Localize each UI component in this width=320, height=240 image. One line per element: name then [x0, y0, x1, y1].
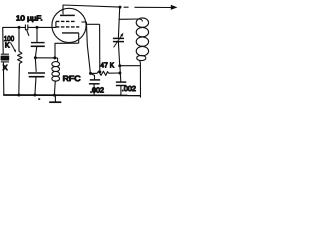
capacitor C5 bottom lead [120, 86, 122, 95]
wire: C3 bottom lead [118, 42, 119, 66]
capacitor C5 .002 top lead [119, 66, 122, 82]
capacitor C1 10uuF right plate [27, 25, 29, 31]
wire: grid line from left rail to tube [2, 26, 25, 28]
resistor R2 47K zigzag [97, 71, 108, 75]
node: dot cathode joins node wire [53, 56, 56, 59]
wire: top plate/B+ rail left segment [63, 5, 120, 7]
tube V1 cathode bar [62, 32, 79, 34]
wire: branch down from node to cathode bypass cap [34, 58, 37, 72]
capacitor C4 .002 top lead from screen node [91, 74, 95, 80]
inductor L1 tank coil loops [136, 18, 148, 61]
resistor R2 47K left lead [91, 72, 98, 74]
crystal X1 bottom plate [1, 61, 9, 63]
speck under rail [38, 98, 40, 100]
resistor R1 100K top lead [18, 27, 20, 51]
tube V1 grid entry hook [55, 21, 57, 28]
variable capacitor C3 arrow [114, 35, 122, 47]
svg-text:47 K: 47 K [100, 60, 114, 69]
wire: tank bottom horizontal [120, 65, 141, 67]
wire: bottom ground rail [3, 94, 140, 97]
svg-text:RFC: RFC [63, 74, 82, 83]
node: junction dot grid/capacitor branch [36, 26, 39, 29]
resistor R1 100K bottom lead [18, 64, 21, 95]
wire: screen stub exiting tube right [82, 21, 87, 23]
capacitor C2 bottom plate [31, 45, 45, 47]
crystal X1 top plate [1, 53, 9, 55]
node: dot screen/R2/C4 junction [89, 72, 92, 75]
crystal X1 body [1, 56, 9, 60]
wire: top rail short dash after dot [124, 6, 129, 8]
node: dot resistor R1 to bottom rail [17, 94, 20, 97]
ground stub [54, 95, 56, 102]
capacitor C6 cathode bypass top plate [28, 72, 45, 74]
capacitor C4 bottom lead [93, 84, 95, 95]
leader arrow from label to C1 [26, 29, 29, 36]
tube V1 envelope [52, 8, 86, 42]
tube V1 control grid (dashed) [56, 20, 75, 22]
wire: cathode node horizontal [35, 57, 57, 59]
node: dot cathode-node left [34, 56, 37, 59]
tube V1 screen grid (dashed) [56, 26, 79, 28]
svg-text:K: K [5, 41, 10, 50]
tube V1 cathode down lead inside envelope [78, 33, 80, 43]
node: dot RFC to bottom rail [53, 94, 56, 97]
wire: tank down lead to ground rail [139, 66, 141, 98]
node: dot on bottom rail (cap branch) [33, 94, 36, 97]
capacitor C5 .002 bottom plate [116, 85, 126, 87]
capacitor C2 top plate [31, 42, 45, 44]
wire: top rail long segment to output [135, 6, 173, 8]
ground bar [49, 101, 61, 103]
resistor R1 100K zigzag [18, 51, 22, 63]
capacitor C6 bottom lead [35, 77, 36, 95]
inductor L1 bottom lead [139, 60, 142, 65]
capacitor C4 .002 bottom plate [89, 83, 100, 85]
wire: tank branch from top rail [118, 7, 119, 38]
capacitor C5 .002 top plate [116, 81, 126, 83]
wire: cross stub to lead B [87, 23, 100, 25]
wire: lead B down [99, 24, 101, 71]
tube V1 plate bar [60, 14, 75, 16]
capacitor C2 bottom lead [35, 46, 37, 57]
wire: screen lead A down [86, 22, 90, 73]
node: junction dot grid/resistor [18, 26, 21, 29]
svg-text:10 µµF.: 10 µµF. [16, 14, 43, 23]
node: dot lead B end [98, 70, 101, 73]
leader arrow from 100K label to R1 [10, 42, 15, 51]
wire: tank top connector to coil [119, 19, 143, 22]
tube V1 plate lead [62, 5, 64, 14]
wire: node corner into RFC [57, 58, 59, 62]
arrowhead: output arrow at top right [171, 5, 178, 10]
wire: cathode from tube bottom [55, 43, 79, 58]
capacitor C2 top lead [36, 27, 38, 42]
wire: left rail [3, 27, 4, 94]
capacitor C4 .002 top plate [90, 79, 100, 81]
wire: grid line cap to tube [28, 26, 56, 28]
inductor RFC choke loops [52, 62, 60, 82]
svg-text:.002: .002 [90, 85, 104, 94]
variable capacitor C3 top plate [113, 37, 124, 39]
svg-text:X: X [3, 63, 8, 72]
node: dot tank bottom junction [118, 64, 121, 67]
inductor RFC bottom lead [53, 81, 56, 95]
capacitor C6 cathode bypass bottom plate [29, 76, 45, 78]
resistor R2 47K right lead [109, 72, 120, 74]
svg-text:.002: .002 [122, 84, 136, 93]
variable capacitor C3 bottom plate [113, 41, 124, 43]
capacitor C1 10uuF left plate [24, 25, 26, 31]
node: dot R2 right end [118, 72, 121, 75]
node: junction dot on top rail [119, 6, 122, 9]
